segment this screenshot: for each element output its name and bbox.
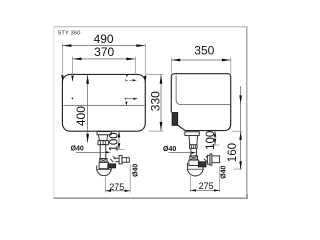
- svg-text:STY 360: STY 360: [58, 30, 81, 36]
- svg-text:160: 160: [227, 143, 239, 162]
- left view: small mark on top edge: [126, 74, 129, 77]
- dimension 350: [171, 44, 231, 74]
- frame border bottom: [53, 197, 247, 199]
- left view: tailpiece cone: [99, 135, 108, 141]
- dimension 160 (right view): [227, 86, 242, 170]
- right view: wall socket: [212, 156, 220, 163]
- right view: tailpiece cone: [189, 135, 198, 144]
- dimension 370: [73, 45, 136, 74]
- dimension 100 (left view): [109, 131, 125, 151]
- svg-text:Ø40: Ø40: [163, 146, 176, 153]
- left view: drain flange under basin: [97, 132, 111, 135]
- right view: trap entry nut: [190, 156, 198, 160]
- frame border right: [246, 27, 248, 199]
- right view: drain fitting block: [172, 113, 178, 126]
- left view: reference arrow at 370 extension: [71, 62, 73, 82]
- left view: basin outline: [62, 74, 145, 131]
- frame corner accent: [246, 194, 248, 199]
- dimension 100 (right view): [205, 131, 220, 150]
- svg-text:Ø40: Ø40: [132, 164, 139, 177]
- left view: inner reference arrow lower: [124, 97, 137, 100]
- right view: basin outline: [171, 74, 230, 131]
- dimension 330 (vertical, right of left view): [146, 75, 163, 132]
- right view: wall flange: [210, 154, 212, 165]
- right view: drain flange under basin: [185, 132, 199, 136]
- dimension 400 (vertical, left view): [74, 75, 89, 143]
- svg-text:350: 350: [194, 44, 214, 58]
- svg-text:330: 330: [149, 91, 163, 111]
- svg-text:400: 400: [74, 106, 88, 126]
- left view: reference arrow at basin right edge: [144, 75, 146, 83]
- left view: trap outlet nut: [108, 164, 116, 168]
- right view: dia40 leader line: [169, 152, 197, 154]
- left view: tailpiece nut: [98, 141, 108, 145]
- dimension 275 (left view): [105, 164, 130, 193]
- right view: tailpiece nut: [190, 145, 198, 149]
- right view: outlet thin nut: [207, 155, 210, 164]
- left view: arrow to inner bottom line: [125, 102, 127, 106]
- left view: reference arrow at basin left edge: [61, 75, 63, 82]
- right view: outlet elbow: [204, 156, 209, 162]
- left view: trap entry nut: [100, 159, 107, 163]
- left view: small dot: [72, 98, 74, 100]
- left view: basin inner bottom line: [63, 105, 144, 107]
- svg-text:100: 100: [109, 132, 121, 151]
- left view: wall socket: [122, 158, 129, 163]
- frame border top: [54, 26, 247, 28]
- svg-text:Ø40: Ø40: [71, 145, 84, 152]
- right view: trap bulb: [188, 163, 204, 176]
- left view: trap bulb: [97, 166, 112, 176]
- svg-text:275: 275: [199, 181, 214, 191]
- right view: inner wall and bottom: [176, 75, 230, 104]
- left view: outlet pipe: [114, 158, 120, 162]
- dimension 275 (right view): [190, 167, 219, 193]
- left view: dia40 leader line: [76, 151, 111, 153]
- dimension 490: [62, 32, 145, 74]
- left view: outlet elbow: [110, 156, 116, 162]
- left view: trap body: [99, 162, 109, 168]
- svg-text:Ø40: Ø40: [221, 165, 228, 178]
- right view: tailpiece pipe: [191, 148, 197, 156]
- right view: trap body: [189, 160, 199, 165]
- svg-text:490: 490: [94, 32, 114, 46]
- left view: wall flange: [119, 155, 122, 164]
- right view: bottom diagonal to drain: [178, 125, 186, 130]
- svg-text:370: 370: [94, 45, 114, 59]
- svg-text:100: 100: [205, 131, 217, 150]
- left view: tailpiece pipe: [100, 145, 106, 159]
- right view: trap outlet nut: [198, 162, 206, 167]
- svg-text:275: 275: [109, 182, 124, 192]
- frame border left: [53, 27, 55, 199]
- left view: inner reference arrow upper: [126, 79, 137, 82]
